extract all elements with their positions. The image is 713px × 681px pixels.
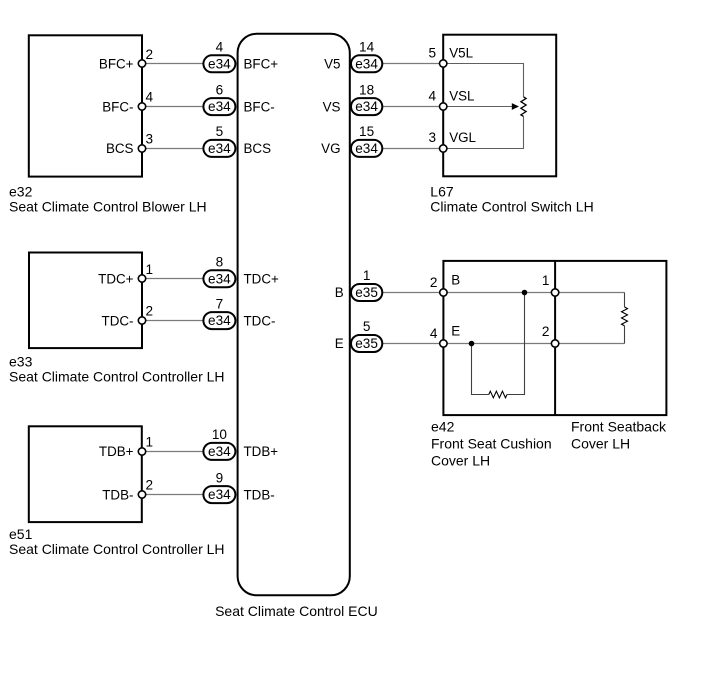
wire seatback node 2 to resistor bbox=[555, 343, 624, 345]
wire TDC+ e33 to e34 bbox=[142, 278, 206, 280]
pin label TDB- ECU bbox=[244, 487, 275, 502]
wire B e35 to e42 pin 2 bbox=[380, 292, 443, 294]
svg-text:Front Seat Cushion: Front Seat Cushion bbox=[431, 436, 552, 452]
connector e34 pin 5 bbox=[203, 124, 235, 157]
node e33 pin 2 bbox=[138, 304, 153, 324]
wire BFC- e32 to e34 bbox=[142, 106, 206, 108]
svg-text:e42: e42 bbox=[431, 419, 455, 435]
box L67 Climate Control Switch LH bbox=[443, 35, 556, 177]
wire E row inside cushion bbox=[443, 343, 555, 345]
svg-text:VG: VG bbox=[321, 141, 340, 156]
svg-text:e34: e34 bbox=[208, 313, 231, 328]
connector e34 pin 15 bbox=[351, 124, 382, 157]
svg-text:VSL: VSL bbox=[449, 88, 474, 103]
svg-text:TDC-: TDC- bbox=[102, 313, 134, 328]
label Front Seatback bbox=[571, 419, 667, 452]
svg-text:e34: e34 bbox=[208, 444, 231, 459]
svg-text:Seat Climate Control Blower LH: Seat Climate Control Blower LH bbox=[9, 199, 207, 215]
svg-text:e34: e34 bbox=[208, 56, 231, 71]
ECU connector body U1 bbox=[238, 34, 350, 596]
resistor in seatback cover bbox=[622, 293, 628, 344]
svg-text:1: 1 bbox=[363, 268, 371, 283]
svg-text:1: 1 bbox=[542, 273, 550, 288]
svg-text:TDB+: TDB+ bbox=[244, 444, 279, 459]
svg-text:7: 7 bbox=[216, 296, 224, 311]
pin label VGL L67 bbox=[449, 130, 476, 145]
node seatback pin 1 bbox=[542, 273, 559, 296]
svg-text:Cover LH: Cover LH bbox=[431, 453, 490, 469]
node e51 pin 1 bbox=[138, 435, 153, 456]
svg-text:TDB+: TDB+ bbox=[99, 444, 134, 459]
svg-text:e34: e34 bbox=[208, 487, 231, 502]
svg-text:15: 15 bbox=[359, 124, 374, 139]
wire TDC- e33 to e34 bbox=[142, 320, 206, 322]
ECU label bbox=[215, 603, 378, 619]
svg-text:E: E bbox=[335, 336, 344, 351]
pin label TDC- e33 bbox=[102, 313, 134, 328]
pin label VG ECU bbox=[321, 141, 340, 156]
svg-text:1: 1 bbox=[146, 435, 154, 450]
wire BFC+ e32 to e34 bbox=[142, 63, 206, 65]
svg-text:8: 8 bbox=[216, 255, 224, 270]
pin label VS ECU bbox=[323, 99, 341, 114]
pin label E e42 bbox=[451, 324, 460, 339]
node e32 pin 4 bbox=[138, 90, 153, 111]
node seatback pin 2 bbox=[542, 324, 559, 347]
node e42 pin 4 bbox=[430, 326, 447, 347]
pin label TDB+ e51 bbox=[99, 444, 134, 459]
svg-text:VGL: VGL bbox=[449, 130, 476, 145]
svg-text:TDC+: TDC+ bbox=[244, 272, 280, 287]
svg-text:TDC+: TDC+ bbox=[98, 272, 134, 287]
box e51 Seat Climate Control Controller LH bbox=[29, 426, 142, 522]
pin label BFC- ECU bbox=[244, 99, 275, 114]
svg-text:e34: e34 bbox=[208, 141, 231, 156]
svg-text:BCS: BCS bbox=[106, 141, 134, 156]
svg-text:4: 4 bbox=[146, 90, 154, 105]
node e33 pin 1 bbox=[138, 262, 153, 282]
node e51 pin 2 bbox=[138, 478, 153, 498]
svg-text:Seat Climate Control ECU: Seat Climate Control ECU bbox=[215, 603, 378, 619]
pin label TDB- e51 bbox=[102, 487, 133, 502]
connector e34 pin 9 bbox=[203, 470, 235, 503]
svg-text:e33: e33 bbox=[9, 354, 33, 370]
svg-text:5: 5 bbox=[216, 124, 224, 139]
node e32 pin 3 bbox=[138, 132, 153, 153]
svg-text:BFC-: BFC- bbox=[244, 99, 275, 114]
svg-text:Front Seatback: Front Seatback bbox=[571, 419, 667, 435]
svg-text:B: B bbox=[335, 285, 344, 300]
box e32 Seat Climate Control Blower LH bbox=[29, 35, 142, 176]
label L67 bbox=[430, 183, 593, 214]
label e32 bbox=[9, 184, 207, 215]
svg-text:V5: V5 bbox=[324, 57, 340, 72]
wire seatback node 1 to resistor bbox=[555, 292, 624, 294]
svg-text:VS: VS bbox=[323, 99, 341, 114]
svg-text:e34: e34 bbox=[355, 141, 378, 156]
svg-text:e34: e34 bbox=[208, 99, 231, 114]
pin label B ECU bbox=[335, 285, 344, 300]
svg-text:2: 2 bbox=[146, 478, 154, 493]
svg-text:14: 14 bbox=[359, 40, 375, 55]
svg-text:18: 18 bbox=[359, 82, 374, 97]
svg-text:e34: e34 bbox=[208, 271, 231, 286]
svg-text:L67: L67 bbox=[430, 183, 454, 199]
box e42 Front Seat Cushion Cover LH bbox=[443, 261, 666, 415]
pin label BFC+ ECU bbox=[244, 57, 279, 72]
svg-text:TDB-: TDB- bbox=[102, 487, 133, 502]
pin label BFC+ e32 bbox=[99, 57, 134, 72]
connector e35 pin 1 bbox=[351, 268, 382, 301]
pin label B e42 bbox=[451, 273, 460, 288]
wire VG e34 to L67 pin 3 bbox=[380, 148, 443, 150]
connector e34 pin 14 bbox=[351, 40, 382, 73]
wire TDB- e51 to e34 bbox=[142, 494, 206, 496]
pin label BFC- e32 bbox=[102, 99, 133, 114]
svg-text:e34: e34 bbox=[355, 99, 378, 114]
potentiometer wiper arrow bbox=[443, 103, 519, 110]
connector e34 pin 6 bbox=[203, 82, 235, 115]
svg-text:4: 4 bbox=[428, 88, 436, 103]
svg-text:10: 10 bbox=[212, 427, 228, 442]
svg-text:e34: e34 bbox=[355, 56, 378, 71]
pin label TDC- ECU bbox=[244, 313, 276, 328]
svg-text:E: E bbox=[451, 324, 460, 339]
svg-text:B: B bbox=[451, 273, 460, 288]
svg-text:BFC-: BFC- bbox=[102, 99, 133, 114]
wire E e35 to e42 pin 4 bbox=[380, 343, 443, 345]
svg-text:V5L: V5L bbox=[449, 46, 473, 61]
svg-text:2: 2 bbox=[146, 47, 154, 62]
node e42 pin 2 bbox=[430, 275, 447, 296]
label e51 bbox=[9, 526, 225, 557]
svg-text:5: 5 bbox=[363, 319, 371, 334]
pin label BCS e32 bbox=[106, 141, 134, 156]
svg-text:4: 4 bbox=[216, 40, 224, 55]
wire V5 e34 to L67 pin 5 bbox=[380, 63, 443, 65]
connector e34 pin 4 bbox=[203, 40, 235, 73]
svg-text:TDB-: TDB- bbox=[244, 487, 275, 502]
svg-text:1: 1 bbox=[146, 262, 154, 277]
resistor in cushion cover bbox=[472, 293, 525, 398]
svg-text:6: 6 bbox=[216, 82, 224, 97]
node L67 pin 4 bbox=[428, 88, 446, 110]
connector e34 pin 18 bbox=[351, 82, 382, 115]
svg-text:e51: e51 bbox=[9, 526, 33, 542]
svg-text:4: 4 bbox=[430, 326, 438, 341]
connector e34 pin 8 bbox=[203, 255, 235, 288]
wire TDB+ e51 to e34 bbox=[142, 451, 206, 453]
svg-text:BFC+: BFC+ bbox=[99, 57, 134, 72]
svg-text:3: 3 bbox=[428, 130, 436, 145]
svg-text:e32: e32 bbox=[9, 184, 33, 200]
svg-text:BFC+: BFC+ bbox=[244, 57, 279, 72]
label e42 bbox=[431, 419, 552, 469]
svg-text:Cover LH: Cover LH bbox=[571, 436, 630, 452]
svg-text:2: 2 bbox=[146, 304, 154, 319]
svg-text:Seat Climate Control Controlle: Seat Climate Control Controller LH bbox=[9, 541, 225, 557]
svg-text:5: 5 bbox=[428, 46, 436, 61]
divider Front Seatback Cover LH bbox=[554, 261, 556, 415]
pin label TDB+ ECU bbox=[244, 444, 279, 459]
node e32 pin 2 bbox=[138, 47, 153, 67]
svg-text:2: 2 bbox=[430, 275, 438, 290]
junction dot on E row bbox=[469, 341, 475, 347]
svg-text:Seat Climate Control Controlle: Seat Climate Control Controller LH bbox=[9, 369, 225, 385]
svg-text:Climate Control Switch LH: Climate Control Switch LH bbox=[430, 198, 593, 214]
connector e34 pin 7 bbox=[203, 296, 235, 329]
junction dot on B row bbox=[522, 290, 528, 296]
svg-text:3: 3 bbox=[146, 132, 154, 147]
connector e35 pin 5 bbox=[351, 319, 382, 352]
wire BCS e32 to e34 bbox=[142, 148, 206, 150]
pin label E ECU bbox=[335, 336, 344, 351]
pin label TDC+ ECU bbox=[244, 272, 280, 287]
svg-text:BCS: BCS bbox=[244, 141, 272, 156]
potentiometer VR1 in L67 bbox=[443, 64, 526, 149]
node L67 pin 3 bbox=[428, 130, 446, 152]
pin label V5L L67 bbox=[449, 46, 473, 61]
pin label BCS ECU bbox=[244, 141, 272, 156]
box e33 Seat Climate Control Controller LH bbox=[29, 253, 142, 349]
pin label VSL L67 bbox=[449, 88, 474, 103]
svg-text:e35: e35 bbox=[355, 336, 378, 351]
pin label TDC+ e33 bbox=[98, 272, 134, 287]
label e33 bbox=[9, 354, 225, 385]
wire VS e34 to L67 pin 4 bbox=[380, 106, 443, 108]
node L67 pin 5 bbox=[428, 46, 446, 68]
pin label V5 ECU bbox=[324, 57, 340, 72]
wire B row inside cushion bbox=[443, 292, 555, 294]
svg-text:TDC-: TDC- bbox=[244, 313, 276, 328]
connector e34 pin 10 bbox=[203, 427, 235, 460]
svg-text:9: 9 bbox=[216, 470, 224, 485]
svg-text:e35: e35 bbox=[355, 285, 378, 300]
svg-text:2: 2 bbox=[542, 324, 550, 339]
